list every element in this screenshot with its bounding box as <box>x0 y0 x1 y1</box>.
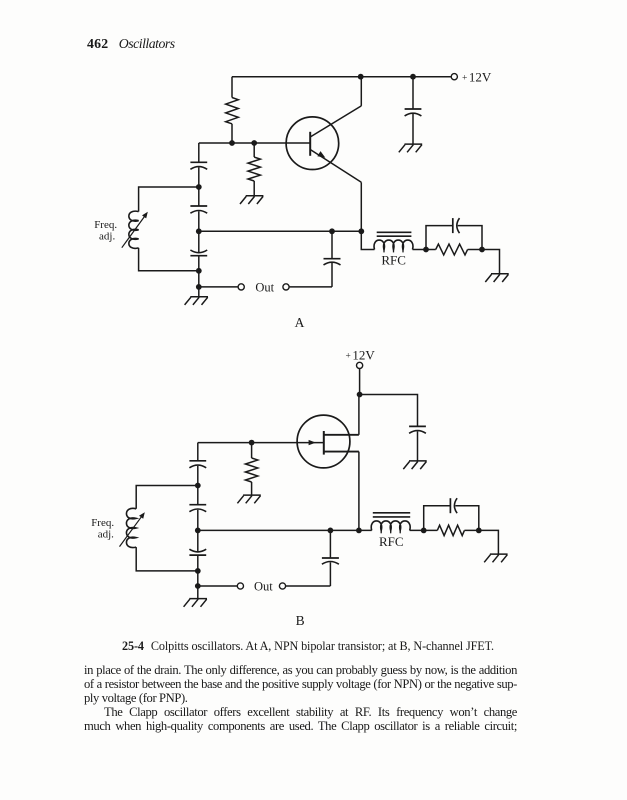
capacitor C7 (divider top, circuit B) <box>189 461 206 468</box>
node: C10 junction on tap line <box>328 528 334 534</box>
wire: tap line from divider to source/RFC (circuit B) <box>198 529 372 531</box>
svg-text:+12V: +12V <box>346 347 376 362</box>
wire: RFC output to RC network (circuit B) <box>410 529 438 531</box>
capacitor C1 (divider top, circuit A) <box>190 162 207 169</box>
node: junction R1/base wire <box>229 140 235 146</box>
wire: drop from emitter junction to RFC level (circuit A) <box>361 231 374 249</box>
svg-text:A: A <box>295 315 305 330</box>
wire: below C9 to ground (circuit B) <box>197 555 199 599</box>
wire: output lead left segment (circuit B) <box>198 585 238 587</box>
terminal: +12V open circle (circuit A) <box>451 74 457 80</box>
node: emitter junction on tap line <box>358 228 364 234</box>
node: output takeoff junction (circuit B) <box>195 583 201 589</box>
svg-text:Freq.: Freq. <box>91 517 114 529</box>
arrow: variable-inductor adjustment arrow (circuit A) <box>122 212 148 248</box>
node: tank bottom junction (inductor bottom, circuit B) <box>195 568 201 574</box>
svg-text:adj.: adj. <box>99 231 115 243</box>
node: bypass cap junction on +12V rail <box>410 74 416 80</box>
ground (tank/divider, circuit B) <box>184 599 207 607</box>
svg-text:B: B <box>296 613 305 628</box>
svg-text:RFC: RFC <box>381 253 406 268</box>
inductor RFC (radio-frequency choke, circuit B) <box>371 513 410 534</box>
svg-text:RFC: RFC <box>379 534 404 549</box>
resistor R4 (gate to ground, circuit B) <box>245 443 257 496</box>
ground (under bypass cap, circuit B) <box>403 461 426 469</box>
node: capacitive tap junction (circuit B) <box>195 528 201 534</box>
wire: between C8 and tap node (circuit B) <box>197 510 199 552</box>
page header <box>87 37 175 51</box>
wire: between C2 and tap node (circuit A) <box>198 211 200 252</box>
wire: supply branch to bypass cap (circuit B) <box>360 395 418 427</box>
transistor Q1 NPN (circuit A) <box>286 106 361 182</box>
wire: inductor top connection (circuit B) <box>136 486 198 509</box>
wire: inductor top connection (circuit A) <box>139 187 199 212</box>
node: RC network right junction (circuit B) <box>476 528 482 534</box>
ground (under bypass cap, circuit A) <box>399 144 422 152</box>
label: Freq. adj. (circuit B) <box>91 517 114 540</box>
node: C4 junction on tap line <box>329 228 335 234</box>
wire: base wire (circuit A) <box>199 142 310 144</box>
terminal: +12V open circle (circuit B) <box>357 362 363 368</box>
wire: RC top branch right riser (circuit B) <box>455 506 479 531</box>
wire: between C1 and C2 (circuit A) <box>198 167 200 206</box>
wire: output lead right segment (circuit A) <box>289 286 332 288</box>
wire: divider drop from base wire (circuit A) <box>198 143 200 162</box>
ground (RC network, circuit A) <box>485 274 508 282</box>
node: tank top junction (inductor top, circuit B) <box>195 483 201 489</box>
body text <box>84 664 517 734</box>
label: Freq. adj. (circuit A) <box>94 219 117 242</box>
wire: RFC output to RC network (circuit A) <box>413 249 436 251</box>
terminal: output open circle right (circuit B) <box>279 583 285 589</box>
capacitor C11 (parallel RC, circuit B) <box>450 498 457 513</box>
ground (tank/divider, circuit A) <box>185 297 208 305</box>
ground (RC network, circuit B) <box>484 554 507 562</box>
wire: below C3 to ground (circuit A) <box>198 256 200 297</box>
wire: inductor bottom connection (circuit A) <box>139 248 199 271</box>
svg-text:Out: Out <box>254 580 273 594</box>
node: tank top junction (inductor top, circuit A) <box>196 184 202 190</box>
resistor R1 (base bias, top left, circuit A) <box>226 77 239 143</box>
node: RC network left junction (circuit A) <box>423 247 429 253</box>
figure caption 25-4 <box>122 640 494 653</box>
capacitor C8 (divider middle, circuit B) <box>189 505 206 512</box>
wire: divider drop from gate wire (circuit B) <box>197 443 199 461</box>
node: collector junction on +12V rail <box>358 74 364 80</box>
wire: tap line from divider to emitter (circuit A) <box>199 230 361 232</box>
capacitor C5 (supply bypass, circuit B) <box>409 426 426 461</box>
node: source junction on tap line <box>356 528 362 534</box>
arrow: variable-inductor adjustment arrow (circuit B) <box>120 512 145 546</box>
node: RC network right junction (circuit A) <box>479 247 485 253</box>
node: gate resistor junction (circuit B) <box>249 440 255 446</box>
wire: RC top branch left riser (circuit A) <box>426 226 453 250</box>
wire: gate wire (circuit B) <box>198 442 324 444</box>
capacitor C5 (supply bypass, circuit A) <box>405 77 422 144</box>
inductor L2 variable (Freq. adj., circuit B) <box>126 508 136 547</box>
terminal: output open circle left (circuit A) <box>238 284 244 290</box>
inductor RFC (radio-frequency choke, circuit A) <box>374 232 413 252</box>
wire: between C7 and C8 (circuit B) <box>197 466 199 505</box>
wire: drain riser to supply node (circuit B) <box>358 395 360 435</box>
wire: output lead left segment (circuit A) <box>199 286 238 288</box>
terminal: output open circle left (circuit B) <box>237 583 243 589</box>
wire: RC top branch right riser (circuit A) <box>458 226 482 250</box>
svg-text:+12V: +12V <box>462 70 492 85</box>
wire: source drop to tap line (circuit B) <box>358 452 360 531</box>
node: drain supply junction (circuit B) <box>357 392 363 398</box>
wire: R3 to right junction and down to ground (circuit A) <box>468 250 500 274</box>
capacitor C4 (output coupling, circuit A) <box>324 231 341 287</box>
resistor R2 (base to ground, circuit A) <box>248 143 260 196</box>
wire: output lead right segment (circuit B) <box>286 585 331 587</box>
resistor R3 (emitter resistor, circuit A) <box>436 244 468 255</box>
node: junction R2/base wire <box>251 140 257 146</box>
capacitor C2 (divider middle, circuit A) <box>190 206 207 213</box>
resistor R5 (source resistor, circuit B) <box>437 525 464 535</box>
capacitor C9 (divider bottom, flipped plates, circuit B) <box>189 549 206 555</box>
svg-text:Out: Out <box>255 280 274 294</box>
svg-text:Freq.: Freq. <box>94 219 117 231</box>
wire: collector riser to +12V rail (circuit A) <box>360 77 362 106</box>
capacitor C10 (output coupling, circuit B) <box>322 530 339 586</box>
capacitor C3 (divider bottom, flipped plates, circuit A) <box>190 250 207 256</box>
capacitor C6 (parallel RC, circuit A) <box>453 218 460 233</box>
wire: emitter drop to tap line (circuit A) <box>360 182 362 231</box>
inductor L1 variable (Freq. adj., circuit A) <box>129 211 139 248</box>
wire: +12V feed down to drain node (circuit B) <box>359 369 361 395</box>
wire: +12V supply rail (top, circuit A) <box>232 76 451 78</box>
svg-text:adj.: adj. <box>98 528 114 540</box>
transistor Q2 N-channel JFET (circuit B) <box>297 415 359 468</box>
ground (under gate resistor, circuit B) <box>237 495 260 503</box>
node: RC network left junction (circuit B) <box>421 528 427 534</box>
wire: R5 to right junction and down to ground (circuit B) <box>464 530 498 554</box>
node: output takeoff junction (circuit A) <box>196 284 202 290</box>
node: capacitive tap junction (circuit A) <box>196 228 202 234</box>
terminal: output open circle right (circuit A) <box>283 284 289 290</box>
ground (under R2, circuit A) <box>240 196 263 204</box>
wire: RC top branch left riser (circuit B) <box>424 506 451 531</box>
node: tank bottom junction (inductor bottom, circuit A) <box>196 268 202 274</box>
wire: inductor bottom connection (circuit B) <box>136 547 198 571</box>
